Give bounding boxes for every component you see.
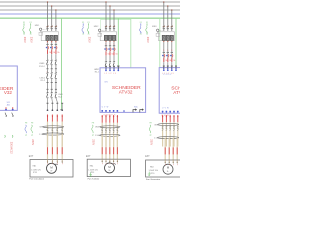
svg-text:gn: gn <box>31 135 33 137</box>
motor cable core <box>109 135 111 159</box>
terminal <box>52 109 54 111</box>
cable fuse mark <box>116 147 118 154</box>
motor cable core <box>105 135 107 159</box>
wire <box>171 62 173 67</box>
svg-text:Fan Turbine: Fan Turbine <box>88 178 100 180</box>
equipment enclosure <box>87 159 130 176</box>
svg-text:RA3: RA3 <box>150 165 154 168</box>
relay contact 1 <box>133 109 136 113</box>
wire <box>55 54 57 60</box>
drive output terminal 0 <box>12 107 14 109</box>
wire tap <box>55 10 57 27</box>
PE drop branch 2 <box>117 18 119 66</box>
svg-text:R1-6: R1-6 <box>58 96 62 98</box>
svg-text:EXT: EXT <box>145 156 150 158</box>
wire tap <box>47 2 49 27</box>
equipment enclosure <box>30 160 73 178</box>
motor terminal 3 <box>164 160 166 163</box>
wire <box>116 123 118 147</box>
svg-text:230V: 230V <box>87 37 90 43</box>
contactor pole <box>50 35 53 40</box>
svg-text:P: P <box>57 164 58 166</box>
contactor pole <box>162 35 165 40</box>
drive input terminal <box>117 66 119 69</box>
terminal dash <box>113 65 115 67</box>
cable contact <box>61 128 63 131</box>
svg-text:1L: 1L <box>109 44 111 46</box>
svg-text:R1-14: R1-14 <box>39 66 45 68</box>
drive output terminal 0 <box>5 107 7 109</box>
svg-text:ATV32: ATV32 <box>119 90 133 95</box>
wire <box>113 123 115 147</box>
svg-text:MB3: MB3 <box>152 26 157 28</box>
contactor frame <box>41 32 58 41</box>
motor terminal <box>56 160 58 163</box>
terminal dash <box>109 65 111 67</box>
motor cable core <box>51 134 53 160</box>
motor M <box>105 163 115 173</box>
wire <box>109 123 111 147</box>
wire tap <box>113 10 115 27</box>
breaker pole <box>109 26 111 27</box>
svg-text:P: P <box>113 163 114 165</box>
wire <box>51 65 53 69</box>
bus L1 <box>0 1 180 3</box>
cable contact <box>166 125 168 128</box>
wire <box>51 82 53 89</box>
svg-text:R2-1: R2-1 <box>95 72 99 74</box>
cable contact <box>56 128 58 131</box>
terminal dash <box>51 68 53 70</box>
terminal dash <box>167 65 169 67</box>
motor cable core <box>56 134 58 160</box>
drive input terminal <box>167 66 169 69</box>
svg-text:230V: 230V <box>92 139 95 145</box>
svg-text:1L: 1L <box>47 42 49 44</box>
wire <box>165 122 167 146</box>
wire <box>56 122 58 147</box>
svg-text:2a: 2a <box>82 34 84 36</box>
breaker pole <box>105 26 107 27</box>
motor terminal <box>61 160 63 163</box>
cable core arrow <box>177 115 179 122</box>
drive output terminal <box>177 111 179 113</box>
drive output terminal <box>169 111 171 113</box>
wire <box>51 42 53 44</box>
wire <box>169 122 171 146</box>
wire <box>105 123 107 147</box>
wire <box>55 65 57 69</box>
cable contact <box>109 128 111 131</box>
cable core arrow <box>105 115 107 123</box>
cable contact <box>173 125 175 128</box>
isolator contact <box>51 92 53 95</box>
wire tap <box>171 10 173 27</box>
svg-text:RA1: RA1 <box>33 165 37 168</box>
svg-text:P: P <box>169 165 170 167</box>
isolator contact <box>46 92 48 95</box>
terminal dash <box>61 102 63 104</box>
svg-text:EXT: EXT <box>86 156 91 158</box>
drive output terminal <box>101 110 103 112</box>
contactor pole <box>54 35 57 40</box>
VFD drive box <box>100 68 146 113</box>
terminal dot <box>109 41 110 42</box>
terminal dot <box>113 41 114 42</box>
cable marker 2 <box>43 133 64 135</box>
cable fuse mark <box>61 147 63 154</box>
wire <box>55 89 57 92</box>
junction dot <box>109 5 110 6</box>
equipment enclosure 3 <box>146 160 182 177</box>
terminal dot <box>51 41 52 42</box>
svg-text:1L: 1L <box>167 50 169 52</box>
isolator contact <box>55 92 57 95</box>
motor terminal <box>101 159 103 162</box>
svg-text:1L: 1L <box>113 44 115 46</box>
wire <box>55 42 57 44</box>
terminal dot <box>105 41 106 42</box>
drive input terminal <box>105 66 107 69</box>
terminal dash <box>55 68 57 70</box>
svg-text:P: P <box>102 163 103 165</box>
svg-text:230V: 230V <box>31 139 34 145</box>
svg-text:V32: V32 <box>4 90 13 95</box>
svg-text:P: P <box>52 164 53 166</box>
terminal <box>56 109 58 111</box>
bus L2 <box>0 5 180 7</box>
contactor pole <box>112 35 115 40</box>
isolator contact <box>55 59 57 62</box>
svg-text:1L: 1L <box>171 50 173 52</box>
cable marker 2 <box>100 134 120 136</box>
motor terminal <box>105 159 107 162</box>
drive input terminal <box>163 66 165 69</box>
breaker pole <box>46 26 48 27</box>
aux dot <box>123 110 125 112</box>
motor PE 3 <box>148 172 151 176</box>
wire <box>51 122 53 147</box>
cable contact <box>52 128 54 131</box>
cable fuse mark <box>172 147 174 154</box>
cable core arrow <box>113 115 115 123</box>
svg-text:L1 L2 L3: L1 L2 L3 <box>105 73 117 75</box>
svg-text:U V W: U V W <box>162 107 169 109</box>
isolator contact <box>46 59 48 62</box>
junction dot <box>163 1 164 2</box>
terminal dash <box>47 88 49 90</box>
cable core arrow <box>165 115 167 122</box>
wire <box>163 42 165 52</box>
isolator contact <box>113 61 115 64</box>
drive input terminal <box>171 66 173 69</box>
motor cable core <box>116 135 118 159</box>
svg-text:1L: 1L <box>163 50 165 52</box>
wire <box>56 98 57 102</box>
cable fuse mark <box>51 147 53 154</box>
svg-text:1L: 1L <box>51 42 53 44</box>
cable core arrow <box>116 115 118 123</box>
wire <box>162 122 164 146</box>
terminal dash <box>163 65 165 67</box>
motor terminal <box>47 160 49 163</box>
cable contact <box>162 125 164 128</box>
terminal <box>47 109 49 111</box>
wire <box>55 82 57 89</box>
wire <box>177 122 179 146</box>
cable core arrow <box>61 115 63 122</box>
svg-text:1L: 1L <box>105 44 107 46</box>
wire <box>167 42 169 52</box>
isolator contact <box>55 72 57 75</box>
cable core arrow <box>47 115 49 122</box>
junction dot <box>47 1 48 2</box>
junction dot <box>55 9 56 10</box>
svg-text:230V: 230V <box>30 37 33 43</box>
svg-text:gn: gn <box>25 135 27 137</box>
terminal dash <box>56 102 58 104</box>
svg-text:EXT: EXT <box>29 156 34 158</box>
cable fuse mark <box>56 147 58 154</box>
wire <box>51 69 53 73</box>
cable contact <box>47 128 49 131</box>
svg-text:gn: gn <box>150 135 152 137</box>
breaker pole <box>163 26 165 27</box>
svg-text:P: P <box>62 164 63 166</box>
contactor pole <box>170 35 173 40</box>
svg-text:IP55: IP55 <box>33 172 37 174</box>
wire <box>47 98 49 102</box>
svg-text:2a: 2a <box>23 34 25 36</box>
cable fuse mark <box>176 147 178 154</box>
wire <box>47 82 49 89</box>
cable core arrow <box>101 115 103 123</box>
terminal dash <box>55 81 57 83</box>
terminal dash <box>55 88 57 90</box>
svg-text:Fan Circulation: Fan Circulation <box>29 178 44 180</box>
wire <box>167 62 169 67</box>
drive output terminal <box>162 111 164 113</box>
terminal dash <box>51 81 53 83</box>
wire <box>47 122 49 147</box>
cable core arrow <box>51 115 53 122</box>
cable fuse mark <box>113 147 115 154</box>
svg-text:ATV3: ATV3 <box>173 90 180 95</box>
svg-text:2a: 2a <box>30 34 32 36</box>
motor terminal 3 <box>172 160 174 163</box>
svg-text:1.5M: 1.5M <box>39 134 44 136</box>
wire <box>109 56 111 62</box>
enclosure branch 3 <box>159 19 161 67</box>
svg-text:230VAC12: 230VAC12 <box>10 142 13 155</box>
VFD drive box 0 <box>0 66 17 110</box>
cable core arrow <box>162 115 164 122</box>
isolator contact <box>51 72 53 75</box>
terminal dash <box>47 102 49 104</box>
wire <box>105 56 107 62</box>
wire <box>47 65 49 69</box>
terminal dash <box>117 65 119 67</box>
wire <box>51 89 53 92</box>
terminal dot <box>167 41 168 42</box>
drive output terminal <box>113 110 115 112</box>
motor cable core <box>168 138 170 160</box>
wire <box>113 56 115 62</box>
svg-text:Fan Generator: Fan Generator <box>146 178 160 180</box>
svg-text:230V: 230V <box>23 37 26 43</box>
svg-text:1.5M: 1.5M <box>95 135 100 137</box>
cable fuse mark <box>168 147 170 154</box>
terminal dash <box>51 102 53 104</box>
wire tap <box>167 6 169 27</box>
breaker pole <box>167 26 169 27</box>
svg-text:MB2: MB2 <box>94 26 99 28</box>
cable contact <box>117 128 119 131</box>
contactor pole <box>46 35 49 40</box>
wire <box>55 69 57 73</box>
breaker pole <box>55 26 57 27</box>
drive input terminal <box>109 66 111 69</box>
svg-text:A01: A01 <box>7 103 10 106</box>
motor terminal <box>116 159 118 162</box>
cable contact <box>169 125 171 128</box>
cable marker <box>43 126 64 128</box>
wire tap <box>105 2 107 27</box>
wire <box>47 54 49 60</box>
svg-text:L1L2L3: L1L2L3 <box>163 74 172 76</box>
junction dot <box>51 5 52 6</box>
wire <box>163 62 165 67</box>
svg-text:RA1: RA1 <box>90 165 94 168</box>
svg-text:230V: 230V <box>149 139 152 145</box>
drive output terminal <box>105 110 107 112</box>
wire <box>173 122 175 146</box>
motor terminal <box>51 160 53 163</box>
wire <box>61 122 63 147</box>
cable fuse mark <box>47 147 49 154</box>
PE drop branch 1 <box>61 18 63 109</box>
wire <box>47 89 49 92</box>
wire 4th core <box>61 103 63 110</box>
motor cable core <box>164 138 166 160</box>
svg-text:P: P <box>117 163 118 165</box>
breaker pole <box>51 26 53 27</box>
motor terminal <box>113 159 115 162</box>
motor PE <box>89 172 92 176</box>
svg-text:2a: 2a <box>140 34 142 36</box>
terminal dot <box>163 41 164 42</box>
wire <box>101 123 103 147</box>
svg-text:U V W: U V W <box>102 107 109 109</box>
isolator contact <box>51 59 53 62</box>
contactor pole <box>108 35 111 40</box>
motor cable core <box>172 138 174 160</box>
svg-text:P: P <box>106 163 107 165</box>
svg-text:230V: 230V <box>146 37 149 43</box>
bus L3 <box>0 9 180 11</box>
junction dot <box>105 1 106 2</box>
cable contact <box>177 125 179 128</box>
drive output terminal <box>166 111 168 113</box>
cable contact <box>113 128 115 131</box>
junction dot <box>113 9 114 10</box>
svg-text:P: P <box>47 164 48 166</box>
motor cable core <box>113 135 115 159</box>
enclosure branch 2 <box>101 19 131 67</box>
isolator contact <box>105 61 107 64</box>
terminal dash <box>47 81 49 83</box>
PE indicator 0 <box>5 135 13 137</box>
drive output terminal <box>109 110 111 112</box>
junction dot <box>167 5 168 6</box>
motor cable core <box>176 138 178 160</box>
motor cable core <box>47 134 49 160</box>
isolator contact <box>109 61 111 64</box>
wire <box>171 42 173 52</box>
bus N <box>0 13 180 15</box>
breaker pole <box>171 26 173 27</box>
terminal dot <box>47 41 48 42</box>
motor terminal <box>109 159 111 162</box>
motor M3 <box>163 164 173 174</box>
wire <box>47 69 49 73</box>
terminal <box>61 109 63 111</box>
cable core arrow <box>109 115 111 123</box>
motor cable core <box>101 135 103 159</box>
signal arrow <box>5 113 7 117</box>
terminal dash <box>171 65 173 67</box>
contactor pole <box>166 35 169 40</box>
svg-text:P: P <box>165 165 166 167</box>
VFD drive box <box>159 68 181 114</box>
cable contact <box>101 128 103 131</box>
cable fuse mark <box>164 147 166 154</box>
breaker pole <box>113 26 115 27</box>
svg-text:CH1: CH1 <box>104 81 108 83</box>
wire <box>51 98 54 102</box>
wire <box>51 54 53 60</box>
cable contact <box>105 128 107 131</box>
drive input terminal <box>113 66 115 69</box>
terminal dash <box>51 88 53 90</box>
contactor frame <box>159 32 175 41</box>
terminal dot <box>171 41 172 42</box>
wire <box>105 42 107 46</box>
wire tap <box>163 2 165 27</box>
contactor pole <box>104 35 107 40</box>
wire <box>47 42 49 44</box>
cable core arrow <box>169 115 171 122</box>
drive input terminal <box>175 66 177 69</box>
svg-text:IP55: IP55 <box>151 173 155 175</box>
svg-text:MB1: MB1 <box>35 25 40 27</box>
cable marker 2 <box>158 137 179 139</box>
motor cable core <box>61 134 63 160</box>
svg-text:P: P <box>109 163 110 165</box>
svg-text:gn: gn <box>92 135 94 137</box>
cable core arrow <box>56 115 58 122</box>
svg-text:P: P <box>177 165 178 167</box>
motor terminal 3 <box>168 160 170 163</box>
terminal dot <box>55 41 56 42</box>
contactor frame <box>100 32 116 41</box>
svg-text:1.5M: 1.5M <box>154 137 159 139</box>
PE drop branch 3 <box>175 18 177 66</box>
wire tap <box>51 6 53 27</box>
drive output terminal <box>117 110 119 112</box>
svg-text:2a: 2a <box>146 34 148 36</box>
svg-text:1L: 1L <box>55 42 57 44</box>
